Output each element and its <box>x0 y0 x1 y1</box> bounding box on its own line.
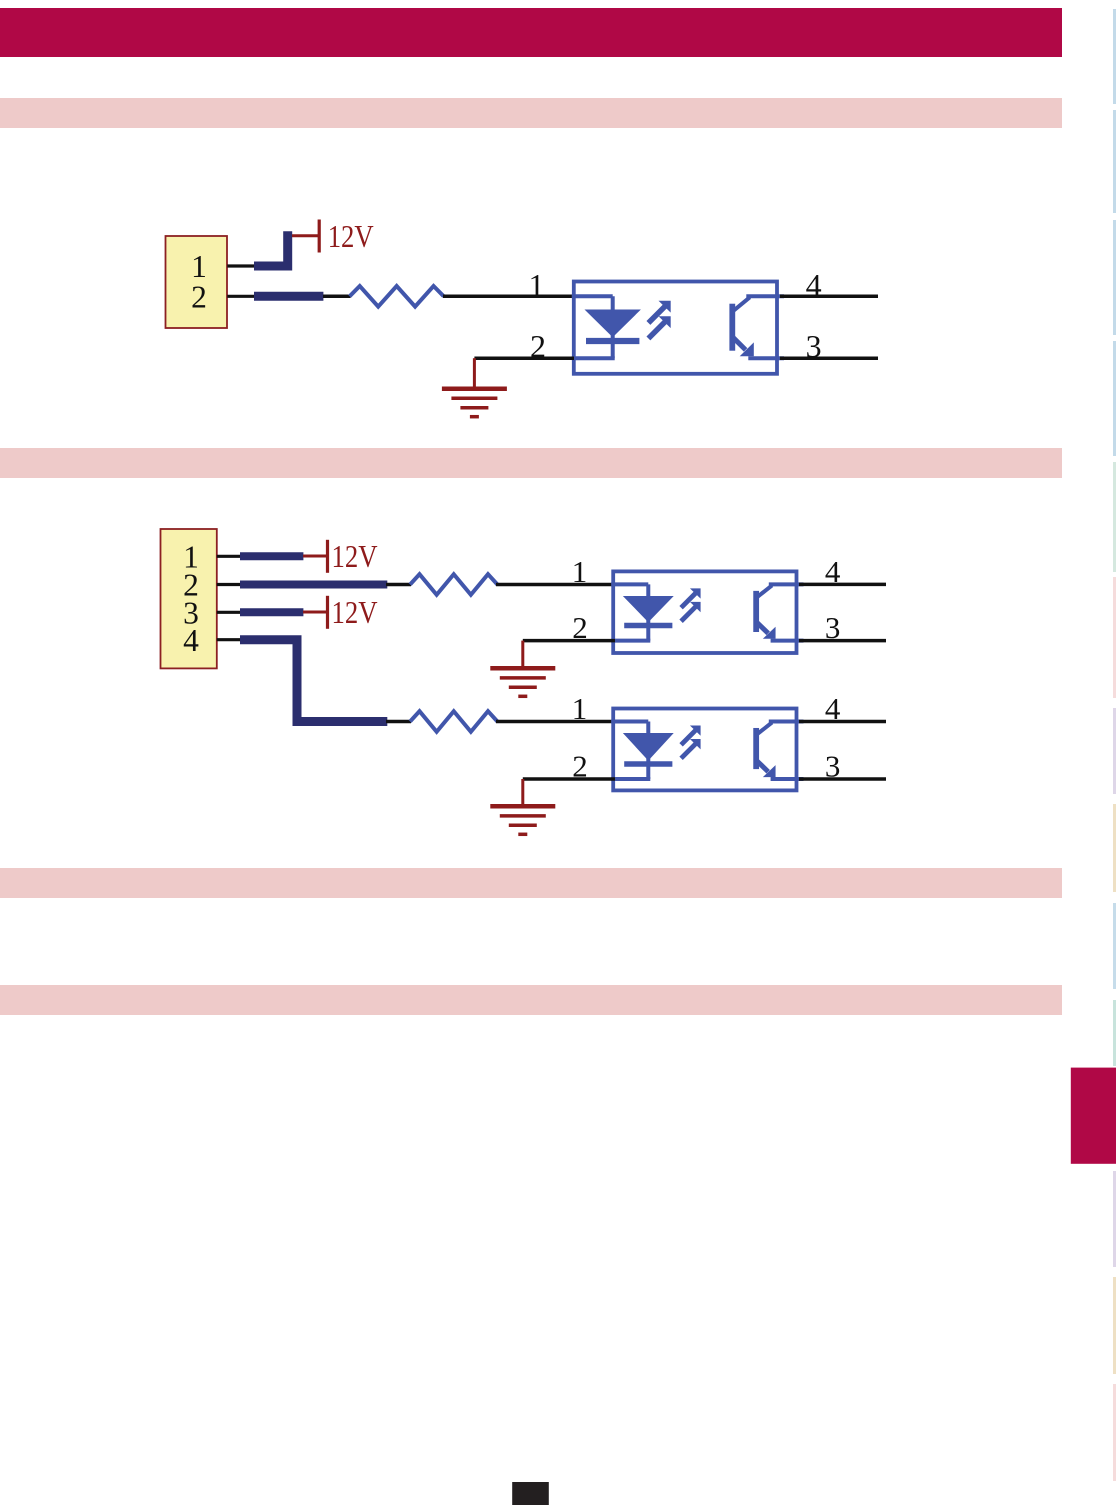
svg-text:2: 2 <box>572 749 588 784</box>
svg-text:1: 1 <box>529 267 545 303</box>
svg-text:12V: 12V <box>332 595 378 630</box>
svg-text:2: 2 <box>572 610 588 645</box>
svg-text:12V: 12V <box>332 539 378 574</box>
svg-text:2: 2 <box>191 279 207 314</box>
svg-text:1: 1 <box>572 554 588 589</box>
svg-text:12V: 12V <box>328 219 374 254</box>
svg-text:4: 4 <box>183 623 199 658</box>
svg-text:1: 1 <box>572 691 588 726</box>
